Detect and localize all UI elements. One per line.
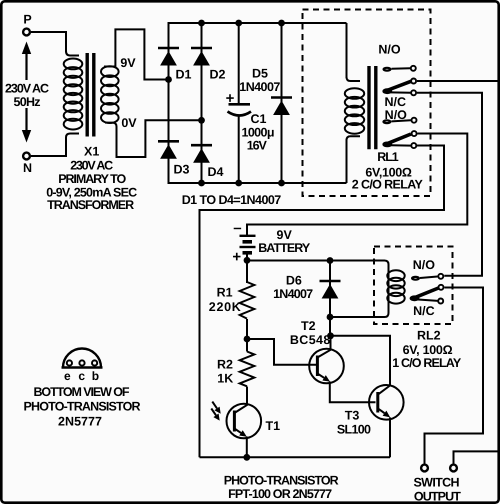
svg-text:1N4007: 1N4007 (273, 287, 313, 301)
svg-text:C1: C1 (251, 112, 267, 126)
svg-text:N/O: N/O (385, 108, 408, 122)
svg-text:b: b (92, 369, 99, 383)
svg-text:RL2: RL2 (417, 329, 441, 343)
svg-text:N/C: N/C (413, 304, 435, 318)
svg-text:T2: T2 (301, 319, 316, 333)
svg-text:RL1: RL1 (377, 150, 399, 164)
svg-text:D3: D3 (174, 162, 190, 176)
svg-text:TRANSFORMER: TRANSFORMER (47, 198, 134, 212)
svg-text:1K: 1K (217, 371, 233, 385)
svg-text:9V: 9V (277, 228, 293, 242)
svg-text:P: P (23, 13, 31, 27)
svg-text:1 C/O RELAY: 1 C/O RELAY (392, 356, 462, 370)
svg-text:R2: R2 (217, 358, 233, 372)
svg-text:16V: 16V (247, 139, 268, 153)
svg-text:PHOTO-TRANSISTOR: PHOTO-TRANSISTOR (24, 400, 141, 414)
svg-text:FPT-100 OR 2N5777: FPT-100 OR 2N5777 (228, 487, 332, 501)
svg-text:PRIMARY TO: PRIMARY TO (58, 172, 126, 186)
svg-text:N/C: N/C (385, 95, 407, 109)
svg-text:230V AC: 230V AC (5, 82, 49, 96)
svg-text:BC548: BC548 (290, 333, 331, 347)
svg-text:T1: T1 (266, 419, 281, 433)
svg-text:SWITCH: SWITCH (414, 476, 460, 490)
svg-text:1N4007: 1N4007 (239, 80, 280, 94)
svg-text:SL100: SL100 (337, 423, 371, 437)
svg-text:R1: R1 (217, 286, 233, 300)
svg-text:c: c (78, 369, 85, 383)
svg-text:2 C/O RELAY: 2 C/O RELAY (352, 177, 424, 191)
svg-text:0V: 0V (121, 116, 137, 130)
svg-text:T3: T3 (345, 409, 360, 423)
svg-text:–: – (233, 220, 241, 237)
svg-text:BATTERY: BATTERY (258, 241, 311, 255)
svg-text:230V AC: 230V AC (70, 159, 113, 173)
svg-text:X1: X1 (84, 144, 99, 158)
svg-text:OUTPUT: OUTPUT (414, 489, 461, 503)
svg-text:2N5777: 2N5777 (58, 415, 102, 429)
svg-text:BOTTOM VIEW OF: BOTTOM VIEW OF (34, 385, 130, 399)
svg-text:D4: D4 (208, 165, 224, 179)
svg-text:D5: D5 (252, 66, 268, 80)
svg-text:D1 TO D4=1N4007: D1 TO D4=1N4007 (182, 193, 282, 207)
svg-text:N/O: N/O (413, 258, 436, 272)
svg-text:50Hz: 50Hz (14, 95, 41, 109)
svg-text:D2: D2 (210, 68, 226, 82)
svg-text:PHOTO-TRANSISTOR: PHOTO-TRANSISTOR (224, 474, 339, 488)
svg-text:220K: 220K (209, 300, 241, 314)
svg-text:N/O: N/O (378, 42, 401, 56)
svg-text:9V: 9V (120, 56, 136, 70)
svg-text:+: + (232, 248, 241, 265)
svg-text:e: e (64, 369, 71, 383)
svg-text:D1: D1 (176, 68, 192, 82)
svg-text:D6: D6 (286, 273, 302, 287)
svg-text:6V, 100Ω: 6V, 100Ω (403, 343, 453, 357)
svg-text:N: N (23, 161, 32, 175)
svg-text:+: + (226, 90, 235, 107)
svg-text:1000μ: 1000μ (242, 125, 275, 139)
